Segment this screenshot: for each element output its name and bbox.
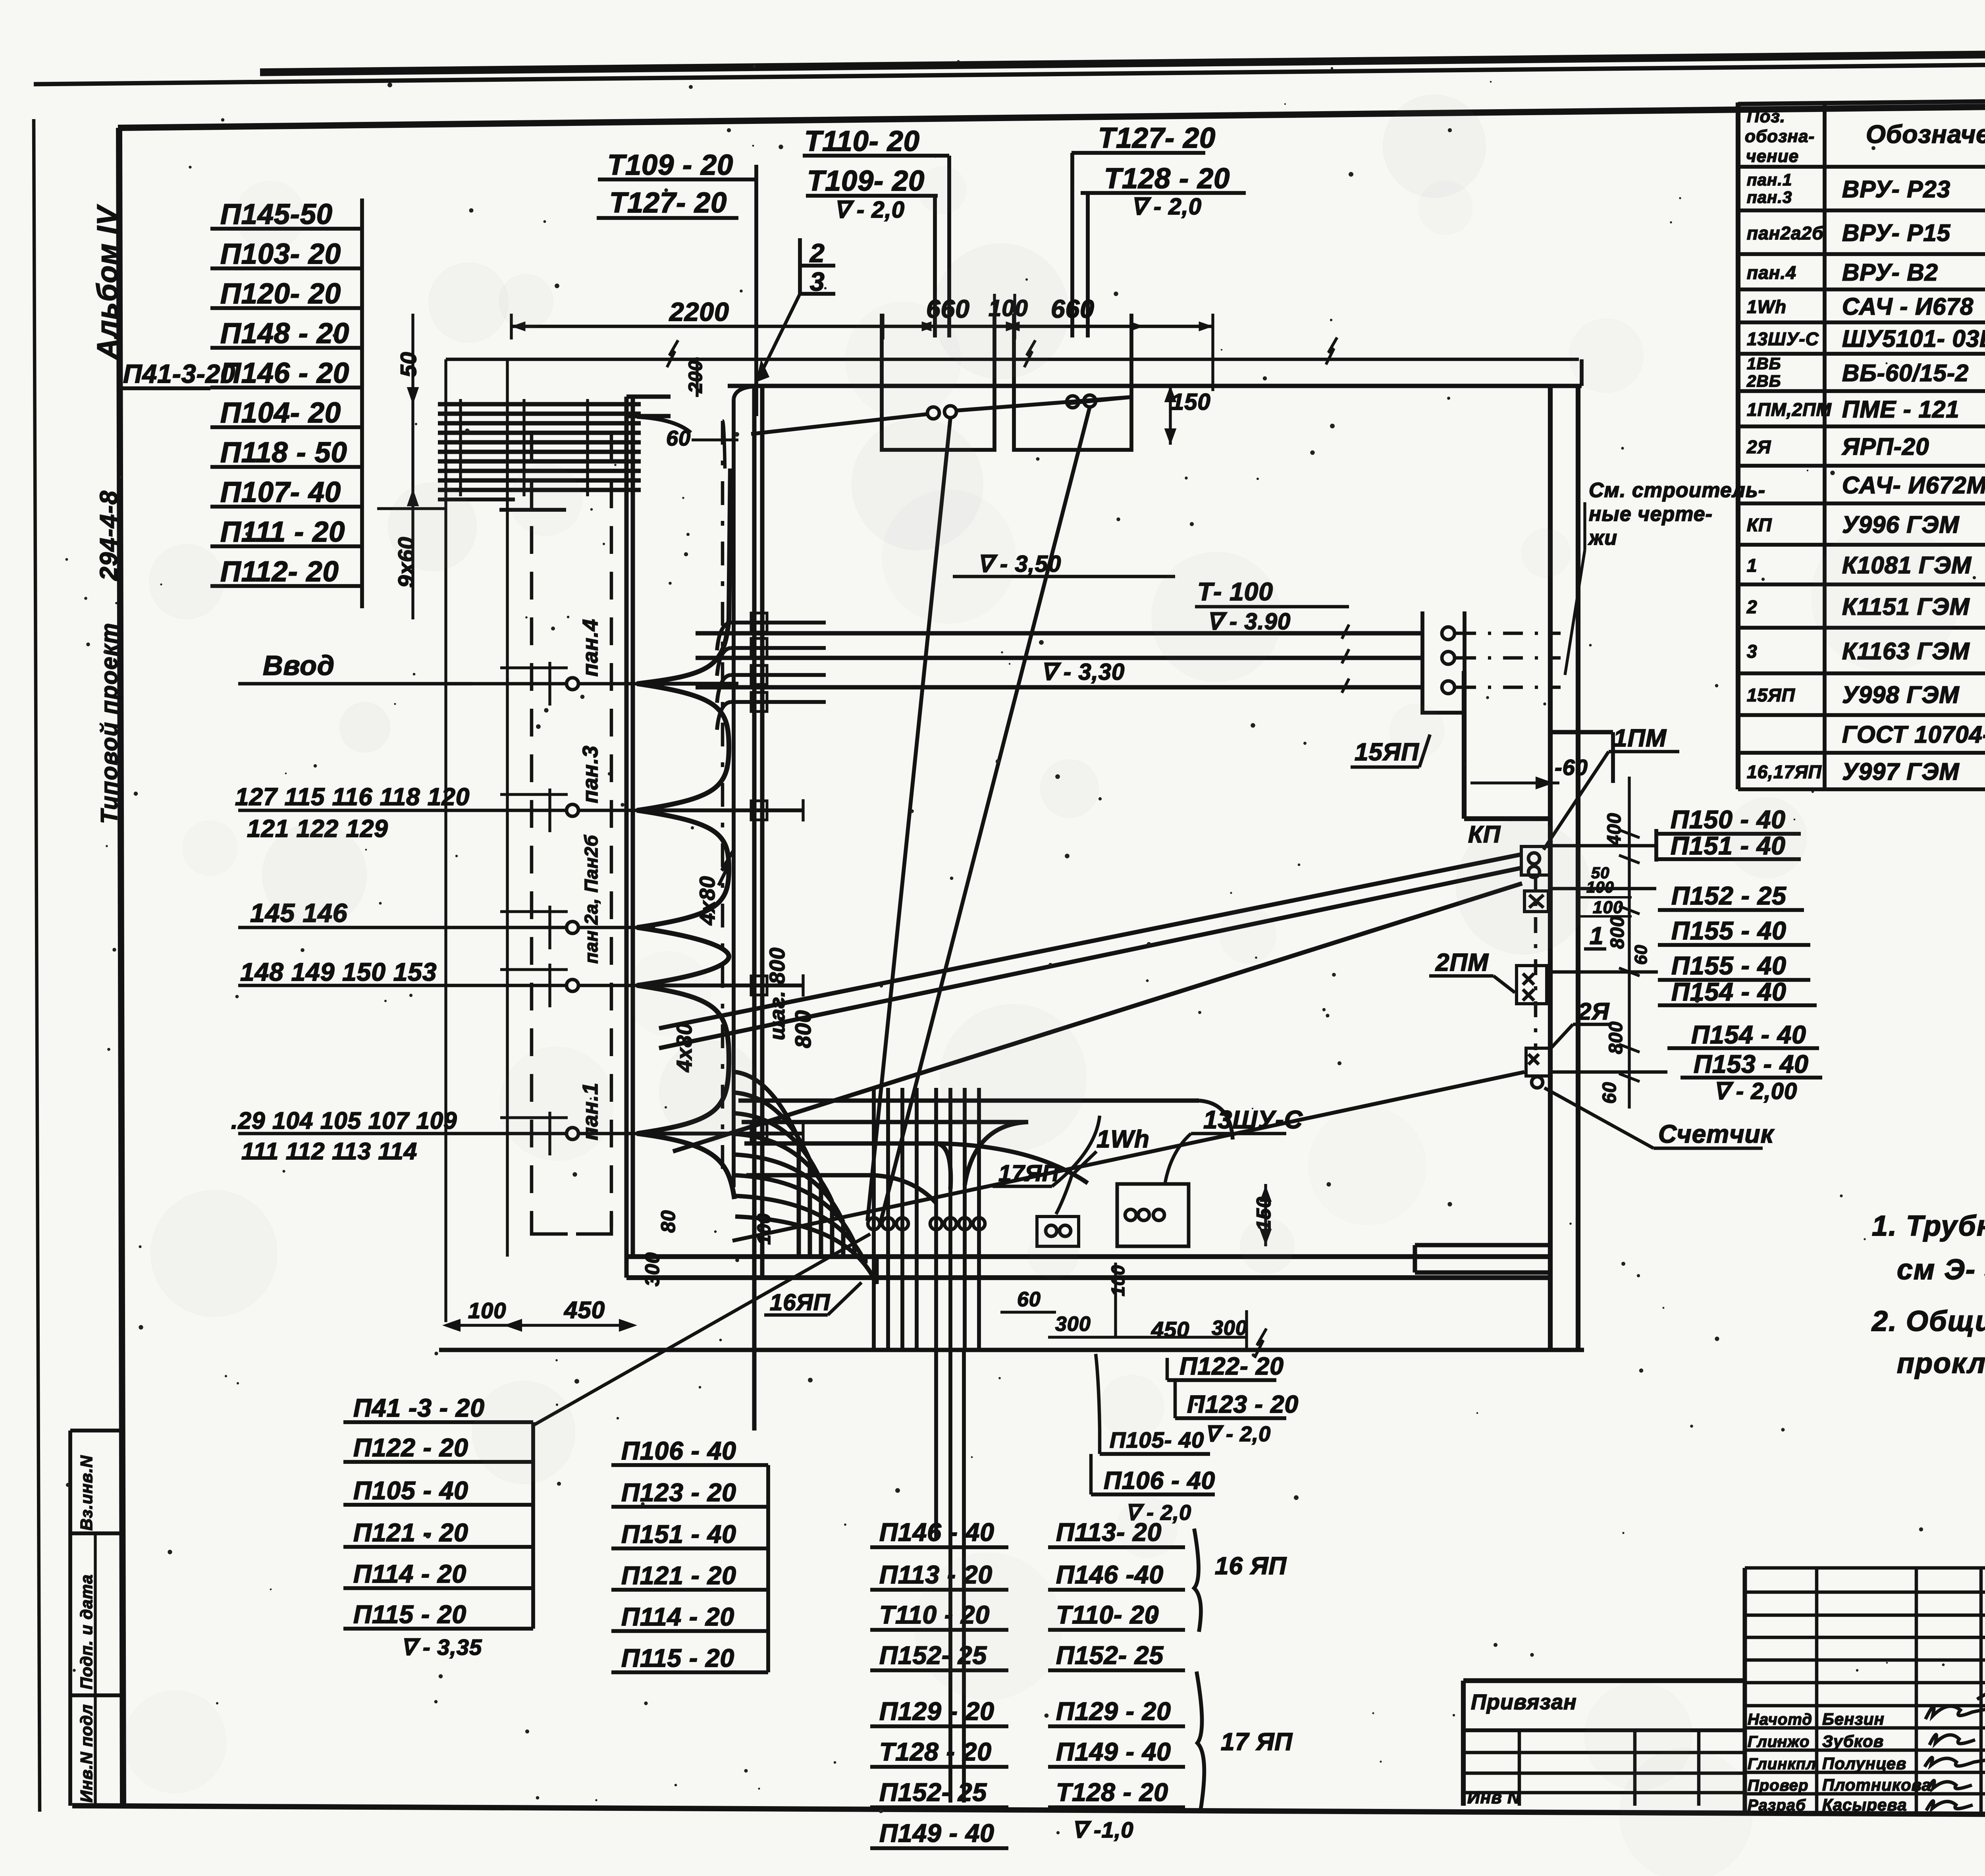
stack C connector — [870, 1547, 871, 1848]
svg-text:100: 100 — [468, 1298, 506, 1323]
verticals dropping to bottom stacks — [936, 1350, 964, 1803]
collector hooks into bundle — [873, 1101, 1233, 1203]
svg-text:П152- 25: П152- 25 — [1056, 1641, 1164, 1670]
panel node aux at y=2482 — [238, 979, 655, 991]
svg-text:Поз.: Поз. — [1747, 107, 1785, 126]
label Т128 - 20 D — [1048, 1778, 1185, 1807]
panel node пан.4 at y=1722 — [238, 619, 655, 690]
table row К1151 ГЭМ — [1746, 594, 1985, 620]
svg-text:Т128 - 20: Т128 - 20 — [1056, 1778, 1168, 1807]
svg-text:ГОСТ 10704-76: ГОСТ 10704-76 — [1842, 721, 1985, 748]
table row ВРУ- В2 — [1747, 259, 1985, 286]
table row ГОСТ 10704-76 — [1842, 715, 1985, 755]
svg-text:П120- 20: П120- 20 — [220, 278, 341, 310]
svg-text:чение: чение — [1746, 147, 1799, 166]
svg-text:3: 3 — [810, 267, 825, 296]
cable label П107- 40 — [210, 476, 362, 508]
label П113- 20 D — [1048, 1518, 1185, 1547]
svg-text:17 ЯП: 17 ЯП — [1221, 1728, 1293, 1756]
right stack П155-40 — [1658, 916, 1810, 945]
svg-text:1: 1 — [1747, 555, 1758, 576]
svg-text:П121 - 20: П121 - 20 — [621, 1561, 736, 1590]
label 104 105 107 109 — [231, 1107, 457, 1165]
svg-text:ВРУ- В2: ВРУ- В2 — [1842, 259, 1938, 286]
shelf vertical guide left — [444, 359, 447, 1322]
svg-text:Касырева: Касырева — [1822, 1795, 1907, 1814]
svg-text:16ЯП: 16ЯП — [770, 1290, 831, 1315]
cable label П104- 20 — [210, 397, 362, 429]
svg-text:Т127- 20: Т127- 20 — [1098, 122, 1216, 154]
table row ВРУ- Р15 — [1747, 214, 1985, 253]
label П122 - 20 — [343, 1433, 533, 1462]
label Т-100 — [1195, 577, 1349, 634]
svg-text:П146 - 20: П146 - 20 — [220, 357, 349, 389]
trunk top connection to boundary — [637, 386, 756, 469]
label П114 - 20 — [343, 1560, 533, 1588]
dim arrows — [920, 323, 931, 330]
svg-text:Разраб: Разраб — [1748, 1797, 1806, 1814]
cable label Т127-20 (C) — [1072, 122, 1216, 154]
label 16ЯП lower — [764, 1282, 861, 1315]
table row К1163 ГЭМ — [1747, 638, 1985, 665]
svg-text:16 ЯП: 16 ЯП — [1215, 1552, 1287, 1580]
svg-text:Т109 - 20: Т109 - 20 — [607, 149, 733, 181]
svg-text:∇ - 3,30: ∇ - 3,30 — [1041, 659, 1125, 685]
svg-text:жи: жи — [1588, 526, 1617, 549]
stack П105-40 П106-40 — [1091, 1354, 1215, 1525]
label 15ЯП — [1351, 735, 1430, 767]
label П146 - 40 C — [870, 1518, 1008, 1547]
svg-text:См. строитель-: См. строитель- — [1589, 479, 1765, 502]
label 1ПМ — [1544, 725, 1679, 850]
svg-text:1Wh: 1Wh — [1747, 297, 1786, 317]
svg-text:400: 400 — [1604, 813, 1625, 846]
label Т110- 20 D — [1048, 1600, 1185, 1630]
right stack П150-40 П151-40 — [1656, 805, 1801, 862]
svg-text:П111 - 20: П111 - 20 — [220, 516, 345, 548]
svg-text:127 115 116 118 120: 127 115 116 118 120 — [235, 783, 470, 811]
wall step top right — [1550, 732, 1613, 783]
2ПМ box — [1517, 966, 1547, 1004]
svg-text:П149 - 40: П149 - 40 — [1056, 1737, 1171, 1766]
svg-text:ШУ5101- 03В2Н: ШУ5101- 03В2Н — [1842, 326, 1985, 352]
svg-text:Полунцев: Полунцев — [1822, 1754, 1906, 1773]
svg-text:П114 - 20: П114 - 20 — [353, 1560, 466, 1588]
svg-text:Т128 - 20: Т128 - 20 — [879, 1737, 992, 1766]
right stack П154-40 — [1658, 978, 1817, 1006]
svg-text:П152- 25: П152- 25 — [879, 1778, 987, 1807]
svg-text:П105 - 40: П105 - 40 — [353, 1476, 468, 1505]
dim extension verticals — [881, 314, 884, 339]
cable label П112- 20 — [210, 556, 362, 588]
schetchik box — [1526, 1048, 1550, 1088]
label П149 - 40 C — [870, 1819, 1008, 1848]
diagonal cables to KP — [659, 854, 1524, 1241]
table row САЧ- И672М — [1842, 472, 1985, 499]
cable label П146 - 20 — [210, 357, 362, 389]
cable label Т109-20 (A) — [598, 149, 756, 181]
cable label Т128-20 (C) — [1081, 163, 1246, 195]
label П129 - 20 D — [1048, 1697, 1185, 1726]
svg-text:ВРУ- Р23: ВРУ- Р23 — [1842, 176, 1950, 202]
svg-text:2ПМ: 2ПМ — [1435, 949, 1489, 976]
svg-text:4х80: 4х80 — [696, 876, 719, 925]
svg-text:Типовой проект: Типовой проект — [96, 622, 122, 824]
svg-text:2: 2 — [809, 238, 825, 268]
right stack П153-40 lower — [1681, 1050, 1822, 1078]
svg-text:450: 450 — [564, 1297, 605, 1323]
label П114 - 20 B — [611, 1602, 768, 1631]
svg-text:П149 - 40: П149 - 40 — [879, 1819, 994, 1847]
svg-text:П153 - 40: П153 - 40 — [1694, 1050, 1809, 1078]
diagonal from label stack A to bundle — [533, 1234, 870, 1425]
cables entering box 1 — [751, 397, 1131, 434]
svg-text:прокладки труб см. Э-2: прокладки труб см. Э-2 — [1897, 1348, 1985, 1379]
leader verticals from labels C — [1070, 153, 1074, 337]
frame: inner border left — [119, 128, 123, 1807]
svg-text:800: 800 — [790, 1010, 815, 1048]
svg-text:111 112 113 114: 111 112 113 114 — [241, 1138, 417, 1165]
svg-text:3: 3 — [1747, 641, 1758, 662]
table row К1081 ГЭМ — [1747, 552, 1985, 578]
svg-text:1ПМ: 1ПМ — [1613, 725, 1667, 752]
label П113 - 20 C — [870, 1560, 1008, 1590]
svg-text:2Я: 2Я — [1578, 998, 1609, 1025]
svg-text:пан.4: пан.4 — [1747, 262, 1796, 283]
svg-text:КП: КП — [1747, 515, 1772, 535]
svg-text:П129 - 20: П129 - 20 — [879, 1697, 994, 1726]
label Т110 - 20 C — [870, 1600, 1008, 1630]
svg-text:П41-3-20: П41-3-20 — [123, 359, 235, 388]
svg-text:2: 2 — [1746, 597, 1758, 617]
table header texts — [1745, 107, 1985, 166]
cables entering box 2 — [1067, 395, 1131, 408]
table row ЯРП-20 — [1746, 428, 1985, 467]
room left wall double — [626, 397, 671, 1278]
signature row Глинжо — [1748, 1732, 1884, 1751]
svg-text:Вз.инв.N: Вз.инв.N — [77, 1455, 96, 1531]
svg-text:Т110- 20: Т110- 20 — [804, 125, 920, 157]
vertical connector x3868 — [1534, 875, 1538, 1050]
svg-text:13ШУ-С: 13ШУ-С — [1747, 329, 1819, 349]
svg-text:пан.3: пан.3 — [1747, 188, 1792, 206]
cable label П145-50 — [210, 199, 362, 230]
svg-text:П148 - 20: П148 - 20 — [220, 318, 349, 349]
svg-text:ВБ-60/15-2: ВБ-60/15-2 — [1842, 360, 1969, 386]
stack A connector — [531, 1422, 535, 1629]
vvod box with X — [1524, 891, 1548, 912]
panel node пан.1 at y=2855 — [238, 1082, 655, 1140]
cable label П148 - 20 — [210, 318, 362, 349]
right wall double — [1550, 386, 1578, 1350]
cable label Т127-20 (A) — [597, 187, 738, 219]
svg-text:П123 - 20: П123 - 20 — [621, 1478, 736, 1507]
dimension line 2200 — [511, 297, 1213, 326]
svg-text:П122 - 20: П122 - 20 — [353, 1433, 468, 1462]
label П151 - 40 B — [611, 1520, 768, 1548]
left label stack with vertical connector — [360, 199, 364, 608]
trunk wall channel double — [754, 386, 762, 1431]
label П41 -3 - 20 — [343, 1394, 533, 1422]
dim 150 right of box — [1253, 1184, 1275, 1246]
rotated dims 4x80 80 800 300 100 — [641, 876, 815, 1286]
svg-text:∇ - 2,00: ∇ - 2,00 — [1713, 1078, 1797, 1104]
horizontal collector lines above bundle — [738, 1101, 1199, 1183]
svg-text:пан 2а, Пан2б: пан 2а, Пан2б — [581, 835, 601, 964]
svg-text:пан2а2б: пан2а2б — [1747, 223, 1824, 243]
stub lines right of trunk upper — [717, 623, 826, 730]
svg-text:П146 -40: П146 -40 — [1056, 1560, 1164, 1589]
cable label П118 - 50 — [210, 437, 362, 469]
svg-text:Т127- 20: Т127- 20 — [609, 187, 727, 219]
stack П122-20 П123-20 — [1167, 1353, 1299, 1446]
meter 1Wh box — [1037, 1217, 1079, 1246]
signature row Провер — [1748, 1776, 1931, 1794]
label П152- 25 D — [1048, 1641, 1185, 1670]
label П149 - 40 D — [1048, 1737, 1185, 1767]
label 2ПМ — [1429, 949, 1515, 993]
dim -60 top — [1470, 755, 1588, 788]
wall niche right — [1415, 1245, 1550, 1273]
svg-text:Глинкпл: Глинкпл — [1748, 1755, 1816, 1773]
svg-text:П41 -3 - 20: П41 -3 - 20 — [353, 1394, 485, 1422]
svg-text:Начотд: Начотд — [1748, 1711, 1812, 1728]
right stack П152-25 — [1658, 881, 1804, 910]
svg-text:15ЯП: 15ЯП — [1747, 685, 1795, 706]
bottom bundle verticals group — [874, 1088, 979, 1350]
label 145 146 — [250, 898, 348, 927]
distribution lines to right with protector 15ЯП — [696, 611, 1561, 713]
room bottom wall double — [626, 1257, 1550, 1278]
svg-text:60: 60 — [1631, 945, 1651, 965]
panel zone tick marks — [500, 662, 568, 1155]
cable label П111 - 20 — [210, 516, 362, 548]
svg-text:800: 800 — [1605, 1021, 1627, 1054]
long diagonal upper left — [756, 274, 917, 382]
frame: top border thick line — [260, 48, 1985, 72]
note Sm. stroit. chertezhi — [1565, 479, 1765, 675]
svg-text:У997 ГЭМ: У997 ГЭМ — [1842, 758, 1960, 785]
right stack П155-40 (2) — [1658, 951, 1810, 980]
stamp column box — [70, 1431, 121, 1806]
svg-text:Провер: Провер — [1748, 1777, 1808, 1794]
table row ВБ-60/15-2 — [1746, 354, 1985, 393]
svg-text:шаг. 800: шаг. 800 — [765, 947, 789, 1040]
leader verticals from labels B — [947, 156, 951, 337]
svg-text:Т128 - 20: Т128 - 20 — [1104, 163, 1230, 195]
cable drop slanted through box1 — [867, 418, 950, 1221]
frame: bottom border line — [72, 1806, 1985, 1817]
conduit box 1 — [882, 314, 994, 450]
label 127 115 116 118 120 — [235, 783, 470, 843]
brace 16ЯП — [1194, 1529, 1287, 1632]
frame: inner border top — [118, 100, 1985, 128]
boundary line lower / wall top — [728, 359, 1582, 386]
label Ввод — [238, 650, 472, 684]
svg-text:2Я: 2Я — [1746, 437, 1771, 457]
svg-text:П106 - 40: П106 - 40 — [621, 1436, 736, 1465]
label П152- 25 C — [870, 1778, 1008, 1807]
bundle terminal circles — [868, 1218, 985, 1230]
frame: top border second line — [34, 60, 1985, 84]
cable label П103- 20 — [210, 238, 362, 270]
svg-text:-60: -60 — [1555, 755, 1588, 780]
signature row Начотд — [1748, 1710, 1885, 1728]
table row САЧ - И678 — [1747, 293, 1985, 320]
svg-text:100: 100 — [754, 1213, 774, 1245]
svg-text:1ВБ: 1ВБ — [1747, 354, 1781, 373]
svg-text:∇ - 3,35: ∇ - 3,35 — [401, 1635, 482, 1660]
svg-text:САЧ- И672М: САЧ- И672М — [1842, 472, 1985, 499]
frame: paper left edge — [34, 119, 40, 1812]
leader from 2/3 to wall — [757, 294, 800, 380]
component table grid — [1738, 95, 1985, 789]
svg-text:100: 100 — [1108, 1265, 1128, 1296]
label Т128 - 20 C — [870, 1737, 1008, 1767]
svg-text:2. Общие примечания к черте: 2. Общие примечания к чертежам — [1871, 1305, 1985, 1337]
svg-text:800: 800 — [1607, 916, 1628, 949]
svg-text:300: 300 — [1055, 1313, 1091, 1336]
svg-text:ЯРП-20: ЯРП-20 — [1841, 434, 1929, 460]
cable label П41-3-20 — [122, 359, 235, 388]
signature row Разраб — [1748, 1795, 1907, 1814]
dim 150 vertical — [1166, 386, 1211, 445]
panel node пан.3 at y=2041 — [238, 745, 655, 816]
signature row Глинкпл — [1748, 1754, 1906, 1773]
svg-text:ПМЕ - 121: ПМЕ - 121 — [1842, 396, 1960, 423]
control box 13ШУ-С — [1117, 1184, 1189, 1246]
svg-text:П155 - 40: П155 - 40 — [1671, 951, 1786, 980]
cable label П120- 20 — [210, 278, 362, 310]
svg-text:П123 - 20: П123 - 20 — [1187, 1391, 1299, 1418]
stack connector stubs — [1550, 846, 1667, 1072]
svg-text:Инв N: Инв N — [1467, 1788, 1521, 1807]
label П105 - 40 — [343, 1476, 533, 1505]
svg-text:Т110- 20: Т110- 20 — [1056, 1600, 1159, 1629]
svg-text:Плотникова: Плотникова — [1822, 1776, 1931, 1794]
note 2 — [1871, 1305, 1985, 1379]
svg-text:17ЯП: 17ЯП — [998, 1161, 1059, 1186]
label 148 149 150 153 — [240, 958, 437, 986]
panel connection arcs (pointed arches) — [637, 469, 734, 1199]
svg-text:П115 - 20: П115 - 20 — [353, 1600, 466, 1629]
svg-text:У998 ГЭМ: У998 ГЭМ — [1842, 682, 1960, 708]
stack D verticals — [1048, 1547, 1048, 1807]
svg-text:1: 1 — [1590, 922, 1603, 950]
brace 17ЯП — [1197, 1672, 1293, 1810]
label П121 - 20 — [343, 1518, 533, 1547]
outer bottom boundary — [439, 1328, 1584, 1358]
dim 100 450 bottom left — [446, 1297, 634, 1330]
label П129 - 20 C — [870, 1697, 1008, 1726]
svg-text:П106 - 40: П106 - 40 — [1104, 1467, 1215, 1494]
table row ПМЕ - 121 — [1747, 396, 1985, 423]
table row У998 ГЭМ — [1747, 682, 1985, 708]
table row ШУ5101- 03В2Н — [1747, 326, 1985, 352]
cable shelf hatch lines — [438, 399, 641, 510]
trunk cable bundle verticals — [719, 399, 734, 1187]
svg-text:.29 104 105 107 109: .29 104 105 107 109 — [231, 1107, 457, 1134]
svg-text:П129 - 20: П129 - 20 — [1056, 1697, 1171, 1726]
svg-text:∇ - 2,0: ∇ - 2,0 — [1131, 194, 1202, 220]
svg-text:294-4-8: 294-4-8 — [95, 490, 123, 581]
svg-text:16,17ЯП: 16,17ЯП — [1747, 762, 1822, 782]
shelf vertical guide 2 — [506, 359, 509, 1257]
svg-text:Обозначение: Обозначение — [1866, 120, 1985, 148]
svg-text:2200: 2200 — [669, 297, 729, 326]
wall crossing squares — [751, 613, 767, 1143]
svg-text:П151 - 40: П151 - 40 — [621, 1520, 736, 1548]
svg-text:П121 - 20: П121 - 20 — [353, 1518, 468, 1547]
svg-text:Инв.N подл: Инв.N подл — [77, 1704, 96, 1803]
svg-text:13ШУ-С: 13ШУ-С — [1203, 1105, 1303, 1134]
KP pull box — [1521, 846, 1550, 877]
svg-text:П118 - 50: П118 - 50 — [220, 437, 347, 469]
label 1 near KP — [1584, 922, 1606, 950]
label 1Wh — [1056, 1126, 1150, 1214]
svg-text:пан.4: пан.4 — [578, 619, 602, 677]
svg-text:САЧ - И678: САЧ - И678 — [1842, 293, 1973, 320]
svg-text:150: 150 — [1171, 389, 1211, 415]
svg-text:П107- 40: П107- 40 — [220, 476, 341, 508]
svg-text:1. Трубно - кабельный журнал: 1. Трубно - кабельный журнал — [1872, 1210, 1985, 1242]
dim 60 300 450 300 100 — [1000, 1263, 1247, 1350]
svg-text:60: 60 — [1017, 1288, 1041, 1311]
svg-text:П154 - 40: П154 - 40 — [1691, 1020, 1806, 1049]
dashed panel zone — [532, 435, 611, 1234]
svg-text:пан.3: пан.3 — [578, 745, 602, 803]
svg-text:148 149 150 153: 148 149 150 153 — [240, 958, 437, 986]
dim 60 top-left — [666, 426, 738, 450]
wall step to KP — [1464, 671, 1550, 819]
boundary line upper — [446, 337, 1579, 367]
svg-text:50: 50 — [396, 352, 421, 377]
svg-text:ВРУ- Р15: ВРУ- Р15 — [1842, 220, 1951, 246]
signatures squiggles — [1925, 1706, 1985, 1719]
svg-text:П115 - 20: П115 - 20 — [621, 1644, 734, 1672]
title block: privyazan box — [1463, 1681, 1745, 1807]
svg-text:П114 - 20: П114 - 20 — [621, 1602, 734, 1631]
svg-text:Подп. и дата: Подп. и дата — [77, 1574, 96, 1689]
cable label Т109-20 (B) — [806, 165, 938, 197]
svg-text:300: 300 — [641, 1252, 663, 1286]
table row У997 ГЭМ — [1747, 758, 1985, 785]
label 17ЯП — [992, 1116, 1100, 1186]
svg-text:П112- 20: П112- 20 — [220, 556, 339, 588]
panel leader stubs through wall — [639, 684, 803, 1145]
svg-text:Привязан: Привязан — [1471, 1690, 1577, 1714]
svg-text:2ВБ: 2ВБ — [1746, 372, 1781, 390]
svg-text:∇ -1,0: ∇ -1,0 — [1072, 1817, 1134, 1842]
position mark 2 over 3 — [800, 238, 835, 296]
note 1 — [1872, 1210, 1985, 1286]
svg-text:1Wh: 1Wh — [1097, 1126, 1150, 1153]
label П121 - 20 B — [611, 1561, 768, 1590]
svg-text:П122- 20: П122- 20 — [1179, 1353, 1284, 1380]
svg-text:см Э- 34, Э-35, Э-36: см Э- 34, Э-35, Э-36 — [1897, 1254, 1985, 1286]
svg-text:Счетчик: Счетчик — [1658, 1120, 1775, 1148]
stack B connector — [766, 1465, 770, 1672]
bottom fan curves from trunk — [735, 1072, 877, 1284]
svg-text:Зубков: Зубков — [1822, 1732, 1884, 1751]
label 13ШУ-С — [1165, 1105, 1303, 1182]
level -3.50 — [953, 551, 1175, 577]
label П115 - 20 — [343, 1600, 533, 1629]
small dims 50 100 100 — [1580, 864, 1632, 917]
dim tick line at hatch left — [377, 507, 446, 510]
svg-text:ные черте-: ные черте- — [1589, 503, 1713, 526]
conduit box 2 — [1014, 314, 1131, 450]
